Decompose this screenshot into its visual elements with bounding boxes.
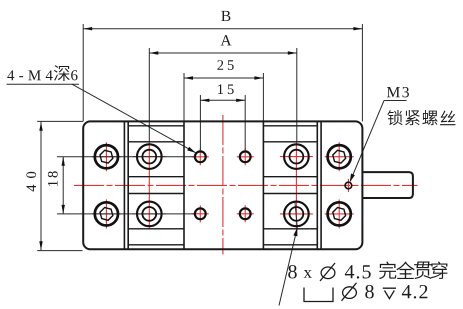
extension line 40 bottom <box>37 250 82 252</box>
extension line 25 left <box>183 73 185 121</box>
rail line left <box>128 141 184 143</box>
extension line 18 bottom <box>57 213 195 215</box>
arrows dimension 15 <box>200 99 209 102</box>
M4 tapped hole top-right <box>240 151 251 162</box>
extension line B left <box>82 24 84 121</box>
dimension line 40 <box>40 122 42 251</box>
hex socket screw top-right <box>328 145 351 168</box>
centerline vertical main <box>222 115 224 255</box>
hex socket screw top-left <box>95 145 118 168</box>
rail line right <box>263 176 317 178</box>
crosshair M4 tapped hole <box>244 205 246 222</box>
rail line right <box>263 228 317 230</box>
label B <box>221 11 230 21</box>
label 4-M4 depth 6 <box>7 70 52 80</box>
shaft knob right <box>362 172 413 198</box>
crosshair counterbore hole <box>280 213 313 215</box>
leader M3 underline <box>384 100 407 102</box>
M4 tapped hole top-left <box>195 151 206 162</box>
rail line right <box>263 193 317 195</box>
extension line 18 top <box>57 156 195 158</box>
leader 4-M4 underline <box>7 83 80 85</box>
arrows dimension 40 <box>39 122 42 131</box>
centerline counterbore column left <box>148 142 150 229</box>
note 8 x dia 4.5 through <box>288 265 296 278</box>
label suo jin luo si (locking screw) <box>387 110 402 125</box>
extension line B right <box>361 24 363 121</box>
centerline counterbore column right <box>295 142 297 229</box>
extension line 25 right <box>262 73 264 121</box>
M3 locking screw hole <box>345 182 352 189</box>
dimension line 25 <box>184 77 263 79</box>
label 40 <box>26 172 36 192</box>
hex socket screw bottom-left <box>95 202 118 225</box>
diameter symbol row2 <box>342 283 357 301</box>
rail line left <box>128 244 184 246</box>
arrows dimension 25 <box>184 76 193 79</box>
M4 tapped hole bottom-left <box>195 208 206 219</box>
M4 tapped hole bottom-right <box>240 208 251 219</box>
section line v1 <box>123 121 125 249</box>
dimension line A <box>149 52 296 54</box>
extension line A left <box>148 48 150 142</box>
leader M3 line <box>350 101 384 182</box>
section line v4 <box>262 121 264 249</box>
leader arrow M3 <box>350 174 355 183</box>
counterbore symbol <box>304 288 333 302</box>
extension line 40 top <box>37 120 83 122</box>
extension line A right <box>296 48 298 142</box>
crosshair hex screw hole <box>105 199 107 228</box>
rail line right <box>263 244 317 246</box>
crosshair counterbore hole <box>133 156 166 158</box>
leader 8xD4.5 line <box>279 228 297 306</box>
rail line right <box>263 125 317 127</box>
label A <box>221 35 232 45</box>
crosshair counterbore hole <box>280 156 313 158</box>
arrows dimension 18 <box>62 157 65 166</box>
crosshair counterbore hole <box>133 213 166 215</box>
extension line 15 right <box>244 95 246 150</box>
counterbore hole bottom-left <box>137 202 162 227</box>
dimension line 18 <box>62 157 64 214</box>
dimension line 15 <box>200 99 245 101</box>
section line v3 <box>183 121 185 249</box>
label 18 <box>48 171 58 186</box>
rail line left <box>128 193 184 195</box>
depth symbol <box>383 288 396 298</box>
leader arrow 8xD4.5 <box>293 228 297 237</box>
rail line left <box>128 228 184 230</box>
rail line left <box>128 176 184 178</box>
section line v6 <box>320 121 322 249</box>
extension line 15 left <box>199 95 201 150</box>
rail line right <box>263 141 317 143</box>
body outline <box>83 121 362 249</box>
centerline horizontal main <box>74 184 418 186</box>
crosshair M3 hole <box>347 179 349 192</box>
crosshair M4 tapped hole <box>199 205 201 222</box>
dimension line B <box>83 28 362 30</box>
crosshair hex screw hole <box>338 142 340 171</box>
section line v5 <box>316 121 318 249</box>
crosshair M4 tapped hole <box>199 148 201 165</box>
crosshair M4 tapped hole <box>244 148 246 165</box>
counterbore hole bottom-right <box>284 202 309 227</box>
label 25 <box>217 60 233 70</box>
diameter symbol row1 <box>320 263 335 281</box>
label 15 <box>218 84 234 94</box>
arrows dimension B <box>83 27 92 30</box>
label M3 <box>387 87 409 97</box>
counterbore hole top-left <box>137 144 162 169</box>
hex socket screw bottom-right <box>328 202 351 225</box>
crosshair hex screw hole <box>105 142 107 171</box>
counterbore hole top-right <box>284 144 309 169</box>
crosshair hex screw hole <box>338 199 340 228</box>
rail line left <box>128 125 184 127</box>
leader 4-M4 line <box>72 84 196 153</box>
leader arrow 4-M4 <box>187 147 196 153</box>
section line v2 <box>127 121 129 249</box>
arrows dimension A <box>149 51 158 54</box>
